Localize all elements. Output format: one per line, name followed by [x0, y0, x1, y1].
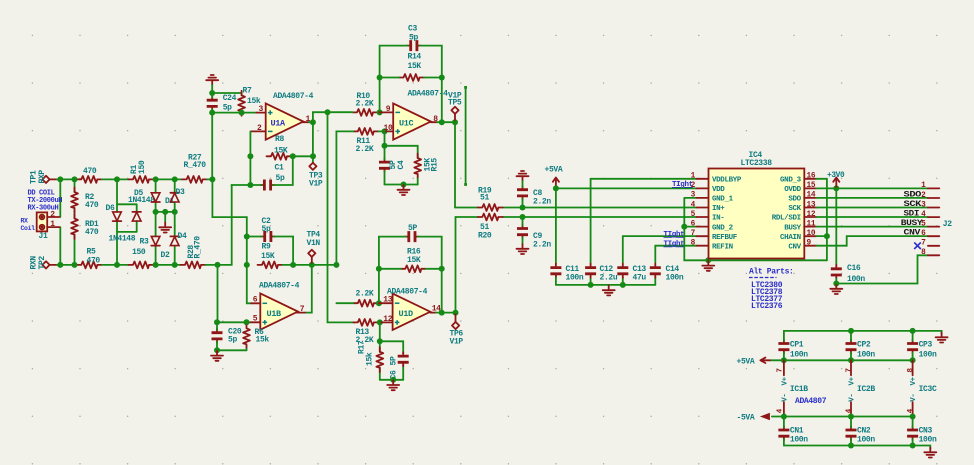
svg-text:RXP: RXP: [38, 170, 47, 184]
J2 pin 7 stub: [928, 245, 939, 247]
junction: [209, 110, 215, 116]
resistor R12 2.2K: [353, 300, 378, 307]
wire J1 net upper: [59, 179, 61, 217]
svg-text:5p: 5p: [223, 103, 232, 112]
svg-text:RX: RX: [21, 218, 29, 225]
junction: [57, 176, 63, 182]
wire VDDLBYP row (pin1): [591, 178, 697, 180]
svg-text:RX-300uH: RX-300uH: [28, 204, 59, 212]
capacitor C11 100n: [550, 264, 561, 278]
svg-text:2.2K: 2.2K: [356, 100, 374, 109]
op-amp IC3C V- pin stub: [912, 402, 914, 417]
svg-text:ADA4807-4: ADA4807-4: [387, 288, 428, 297]
svg-text:100n: 100n: [566, 273, 584, 282]
svg-text:R3: R3: [140, 237, 149, 246]
svg-text:100n: 100n: [666, 273, 684, 282]
svg-text:V1N: V1N: [307, 239, 321, 248]
IC U1? body IC4: [709, 169, 805, 259]
svg-text:5p: 5p: [276, 174, 285, 183]
wire +5VA down to C11: [555, 188, 557, 263]
junction: [114, 176, 120, 182]
wire C16 to J2 pin8: [836, 255, 928, 283]
power +3V0: [827, 172, 845, 188]
svg-text:+5VA: +5VA: [737, 358, 755, 367]
opamp minus sign: [268, 130, 273, 132]
wire C12 column: [590, 179, 592, 285]
wire R14 row: [380, 77, 442, 79]
svg-text:5P: 5P: [390, 356, 399, 365]
svg-text:1N4148: 1N4148: [109, 234, 136, 243]
junction bottom rail: [910, 443, 916, 449]
pin 5 IN- stub: [697, 216, 709, 218]
svg-text:CNV: CNV: [904, 228, 922, 238]
resistor R17 15k: [376, 347, 383, 372]
wire R2/RD1 column: [74, 179, 76, 265]
junction -5VA: [781, 414, 787, 420]
pin 7 REFBUF stub: [697, 235, 709, 237]
svg-text:3: 3: [259, 105, 264, 114]
junction C2 left: [244, 234, 250, 240]
ground (inverted) above C8: [517, 171, 529, 181]
resistor R1 150: [129, 176, 154, 183]
svg-text:V+: V+: [910, 376, 918, 385]
resistor R2 470: [71, 188, 78, 213]
svg-text:U1D: U1D: [399, 309, 414, 319]
svg-text:100n: 100n: [919, 351, 937, 360]
capacitor C13 47u: [617, 264, 628, 278]
svg-text:2.2n: 2.2n: [533, 240, 551, 249]
junction: [390, 377, 396, 383]
wire GND_3 route to ground bus: [816, 179, 827, 260]
wire C1 row: [232, 156, 293, 185]
junction: [153, 176, 159, 182]
svg-text:C1: C1: [275, 164, 284, 173]
wire bottom rail: [217, 349, 247, 351]
junction: [310, 153, 316, 159]
junction: [910, 328, 916, 334]
junction: [239, 110, 245, 116]
pin 16 GND_3 stub: [804, 178, 816, 180]
svg-text:3: 3: [691, 192, 696, 200]
junction +5VA: [781, 357, 787, 363]
resistor R9 15K: [258, 262, 283, 269]
svg-text:ADA4807-4: ADA4807-4: [408, 89, 449, 98]
op-amp U1C: [393, 103, 431, 139]
junction: [401, 182, 407, 188]
opamp minus sign: [263, 302, 268, 304]
junction: [452, 119, 458, 125]
svg-text:1N4148: 1N4148: [128, 196, 155, 205]
ground (inverted) above C24: [206, 75, 218, 85]
svg-text:13: 13: [807, 201, 816, 209]
svg-text:J2: J2: [943, 220, 952, 229]
svg-text:2: 2: [691, 182, 696, 190]
diode D5: [132, 212, 141, 221]
wire C13 column: [622, 236, 624, 285]
wire pin6 column: [247, 237, 252, 304]
op-amp IC1B V+ pin stub: [783, 360, 785, 375]
junction CHAIN: [824, 233, 830, 239]
svg-text:8: 8: [921, 249, 926, 257]
wire CN2 leads: [850, 417, 852, 446]
wire RXP lead: [50, 178, 57, 180]
opamp plus sign: [395, 129, 400, 134]
capacitor CN3 100n: [907, 426, 918, 440]
capacitor C20 5p: [212, 329, 223, 343]
svg-text:100n: 100n: [919, 435, 937, 444]
svg-text:IN+: IN+: [712, 205, 725, 213]
resistor R3 150: [129, 262, 154, 269]
pin 5 stub: [249, 321, 260, 323]
junction: [162, 209, 168, 215]
wire IN- row: [456, 216, 697, 218]
junction: [57, 262, 63, 268]
J2 pin 2 stub: [928, 197, 939, 199]
junction: [377, 75, 383, 81]
junction pin12: [377, 319, 383, 325]
pin 12 stub: [380, 321, 393, 323]
wire R13 right: [378, 321, 380, 323]
wire VDD row (pin2): [556, 187, 697, 189]
junction: [153, 209, 159, 215]
svg-text:5p: 5p: [228, 335, 237, 344]
wire CP3 leads: [912, 331, 914, 360]
op-amp U1B: [260, 293, 298, 329]
J2 pin 5 stub: [928, 226, 939, 228]
wire V1N to R11 (vertical from below): [336, 131, 384, 265]
wire TP6 stem: [455, 314, 457, 322]
svg-text:2: 2: [257, 124, 262, 133]
svg-text:IC1B: IC1B: [790, 385, 808, 394]
pin 3 GND_1 stub: [697, 197, 709, 199]
pin 11 BUSY stub: [804, 226, 816, 228]
wire CP1 leads: [783, 331, 785, 360]
svg-text:8: 8: [691, 240, 696, 248]
diode D4: [170, 236, 179, 245]
junction output: [310, 119, 316, 125]
junction: [114, 262, 120, 268]
svg-text:REFIN: REFIN: [712, 243, 733, 251]
junction pin9: [377, 109, 383, 115]
svg-text:R5: R5: [87, 248, 96, 257]
junction: [72, 176, 78, 182]
junction: [172, 262, 178, 268]
wire down to RXP row: [211, 113, 213, 180]
wire +5VA rail: [770, 359, 913, 361]
wire V1N row: [283, 264, 337, 266]
svg-text:470: 470: [87, 256, 101, 265]
svg-text:R17: R17: [358, 340, 367, 354]
resistor R14 15K: [399, 74, 424, 81]
opamp plus sign: [395, 320, 400, 325]
svg-text:V-: V-: [849, 393, 857, 401]
svg-text:IN-: IN-: [712, 215, 724, 223]
svg-text:51: 51: [480, 194, 489, 203]
junction pin5 row: [214, 319, 220, 325]
wire: [154, 264, 181, 266]
pin 9 stub: [380, 111, 394, 113]
wire C24 leads: [211, 93, 213, 113]
svg-text:1: 1: [921, 182, 926, 190]
wire SCK row: [816, 207, 928, 209]
opamp minus sign: [395, 302, 400, 304]
svg-text:5P: 5P: [408, 224, 417, 233]
wire C9 leads: [522, 217, 524, 244]
resistor R4? 470 top: [77, 176, 102, 183]
wire C14 column: [654, 246, 656, 285]
wire bottom rail: [380, 379, 403, 381]
capacitor C5 5P: [405, 231, 419, 242]
wire U1C output: [437, 121, 455, 123]
wire RXN bottom row: [57, 264, 77, 266]
wire: [328, 111, 380, 113]
diode D3: [170, 193, 179, 202]
junction: [153, 262, 159, 268]
pin 12 RDL/SDI stub: [804, 216, 816, 218]
svg-text:TIght: TIght: [664, 241, 685, 249]
junction pin13: [376, 300, 382, 306]
svg-text:100n: 100n: [790, 351, 808, 360]
power label +5VA (left arrow): [737, 358, 771, 367]
opamp minus sign: [395, 111, 400, 113]
junction C16: [833, 281, 839, 287]
svg-text:C16: C16: [847, 264, 861, 273]
svg-text:REFBUF: REFBUF: [712, 234, 738, 242]
svg-text:VDD: VDD: [712, 186, 725, 194]
test point TP2: [42, 261, 49, 268]
junction TP4: [309, 262, 315, 268]
pin 13 stub: [379, 302, 393, 304]
wire bypass top rail: [784, 331, 942, 334]
capacitor C24 5p: [207, 96, 218, 110]
wire: [154, 178, 183, 180]
resistor R27 R_470: [182, 176, 207, 183]
test point TP1: [42, 176, 49, 183]
pin 3 stub: [257, 112, 266, 114]
diode D2 column lead: [155, 212, 157, 265]
svg-text:RDL/SDI: RDL/SDI: [772, 215, 801, 223]
resistor RD1 470: [71, 214, 78, 239]
svg-text:15: 15: [807, 182, 816, 190]
svg-text:SDI: SDI: [904, 209, 920, 219]
wire TP4 stem: [311, 257, 313, 263]
capacitor C8 2.2n: [517, 186, 528, 200]
resistor R8 15K: [267, 153, 292, 160]
pin 1 stub: [303, 121, 310, 123]
wire CP2 leads: [850, 331, 852, 360]
capacitor CP1 100n: [778, 340, 789, 354]
pin 10 stub: [385, 130, 394, 132]
wire D5/D6 bottom rail: [117, 221, 137, 232]
svg-text:470: 470: [85, 201, 99, 210]
test point TP4: [308, 250, 315, 257]
wire R15 bottom lead: [417, 179, 419, 185]
svg-text:470: 470: [85, 228, 99, 237]
svg-text:V-: V-: [910, 393, 918, 401]
op-amp IC2B V+ pin stub: [850, 360, 852, 375]
svg-text:2: 2: [921, 192, 926, 200]
svg-text:TIght: TIght: [664, 231, 685, 239]
junction pin10: [382, 128, 388, 134]
junction R9 left: [244, 262, 250, 268]
junction: [214, 347, 220, 353]
svg-text:13: 13: [383, 296, 392, 305]
svg-text:D6: D6: [106, 204, 115, 213]
svg-text:15k: 15k: [256, 336, 270, 345]
svg-text:R14: R14: [408, 52, 422, 61]
svg-text:5: 5: [921, 220, 926, 228]
junction GND_2: [681, 224, 687, 230]
svg-text:100n: 100n: [857, 435, 875, 444]
junction +5VA: [848, 357, 854, 363]
resistor R19 51: [478, 204, 503, 211]
svg-text:Coil: Coil: [21, 225, 36, 232]
svg-text:15K: 15K: [408, 62, 422, 71]
pin 14 stub: [430, 312, 436, 314]
wire IN+ row: [455, 207, 697, 209]
svg-text:7: 7: [691, 230, 696, 238]
diode D4 column lead: [174, 212, 176, 265]
J2 pin 6 stub: [928, 235, 939, 237]
junction: [209, 90, 215, 96]
wire to R7 top: [212, 93, 241, 96]
svg-text:SDO: SDO: [904, 189, 922, 199]
svg-text:CN1: CN1: [790, 426, 804, 435]
capacitor C9 2.2n: [517, 225, 528, 239]
svg-text:470: 470: [83, 167, 97, 176]
junction: [215, 262, 221, 268]
pin 14 SDO stub: [804, 197, 816, 199]
svg-text:15K: 15K: [274, 147, 288, 156]
ground C16: [830, 284, 842, 294]
junction R6 top: [244, 319, 250, 325]
wire bottom rail: [385, 184, 418, 186]
svg-text:2.2K: 2.2K: [356, 289, 374, 298]
wire: [102, 264, 129, 266]
capacitor C3 5p: [407, 40, 421, 51]
junction: [848, 328, 854, 334]
svg-text:R9: R9: [262, 243, 271, 252]
capacitor C6: [398, 352, 409, 366]
svg-text:V+: V+: [849, 376, 857, 385]
resistor R13 2.2K: [353, 319, 378, 326]
junction: [376, 266, 382, 272]
svg-text:9: 9: [386, 105, 391, 114]
svg-text:16: 16: [807, 173, 816, 181]
svg-text:12: 12: [807, 211, 816, 219]
opamp plus sign: [263, 320, 268, 325]
diode D1: [151, 193, 160, 202]
capacitor CN1 100n: [778, 426, 789, 440]
ground C9: [517, 244, 529, 254]
svg-text:SCK: SCK: [788, 205, 801, 213]
J2 pin 1 stub: [928, 187, 939, 189]
pin 15 OVDD stub: [804, 187, 816, 189]
ground rail: [603, 285, 615, 295]
svg-text:1: 1: [691, 173, 696, 181]
connector J1: [37, 212, 60, 231]
svg-text:5p: 5p: [409, 33, 418, 42]
svg-text:7: 7: [846, 368, 854, 372]
svg-text:LTC2376: LTC2376: [751, 302, 783, 311]
ground IC4: [702, 261, 714, 271]
pin 1 VDDLBYP stub: [697, 178, 709, 180]
svg-text:IC2B: IC2B: [857, 385, 875, 394]
graphic line: [464, 86, 467, 186]
svg-text:15k: 15k: [366, 352, 375, 366]
svg-text:7: 7: [300, 305, 305, 314]
wire -5VA rail: [772, 416, 913, 418]
wire C5 loop: [379, 237, 442, 269]
opamp plus sign: [268, 110, 273, 115]
wire C4/R15 branch: [385, 131, 418, 158]
wire U1B out up: [305, 265, 312, 313]
test point TP5: [451, 107, 458, 114]
svg-text:IC3C: IC3C: [919, 385, 937, 394]
svg-text:R_470: R_470: [184, 161, 207, 170]
wire V1P to R13 (long vertical): [328, 112, 356, 322]
capacitor C1 5p: [261, 180, 275, 191]
svg-text:5: 5: [253, 315, 258, 324]
junction: [620, 282, 626, 288]
ground clamp: [164, 212, 166, 223]
no-connect X pin7: [914, 242, 921, 249]
pin 13 SCK stub: [804, 207, 816, 209]
wire REFBUF row (pin7): [623, 235, 697, 237]
wire C20 leads: [216, 322, 218, 350]
svg-text:C3: C3: [408, 24, 417, 33]
junction: [439, 266, 445, 272]
resistor R16 15K: [401, 265, 426, 272]
svg-text:6: 6: [921, 230, 926, 238]
svg-text:GND_3: GND_3: [780, 177, 802, 185]
svg-text:150: 150: [138, 160, 147, 174]
svg-text:R15: R15: [431, 158, 440, 172]
svg-text:6: 6: [253, 296, 258, 305]
svg-text:V1P: V1P: [450, 338, 464, 347]
capacitor CP2 100n: [846, 340, 857, 354]
svg-text:R_470: R_470: [194, 236, 203, 259]
pin 4 IN+ stub: [697, 207, 709, 209]
op-amp IC1B V- pin stub: [783, 402, 785, 417]
pin 10 CHAIN stub: [804, 235, 816, 237]
svg-text:J1: J1: [39, 232, 48, 241]
resistor R11 2.2K: [353, 128, 378, 135]
svg-text:1: 1: [50, 220, 55, 229]
resistor R5 470: [77, 262, 102, 269]
junction: [439, 119, 445, 125]
svg-text:CN2: CN2: [857, 426, 871, 435]
resistor R15 15K: [414, 154, 421, 179]
svg-text:5: 5: [691, 211, 696, 219]
svg-text:TIght: TIght: [672, 181, 693, 189]
svg-text:TP5: TP5: [448, 99, 462, 108]
clamp mid rail: [156, 211, 175, 213]
svg-text:CP3: CP3: [919, 340, 933, 349]
wire V1P down to IN+ row: [454, 122, 456, 207]
wire pin2 down: [249, 131, 251, 185]
junction +5VA: [553, 185, 559, 191]
svg-text:CHAIN: CHAIN: [780, 234, 801, 242]
svg-text:R20: R20: [478, 231, 492, 240]
op-amp IC3C V+ pin stub: [912, 360, 914, 375]
svg-text:SDO: SDO: [788, 196, 801, 204]
junction: [439, 310, 445, 316]
wire U1D output: [436, 312, 456, 314]
wire pin3 row: [212, 112, 257, 114]
junction: [290, 262, 296, 268]
capacitor C12 2.2u: [585, 264, 596, 278]
